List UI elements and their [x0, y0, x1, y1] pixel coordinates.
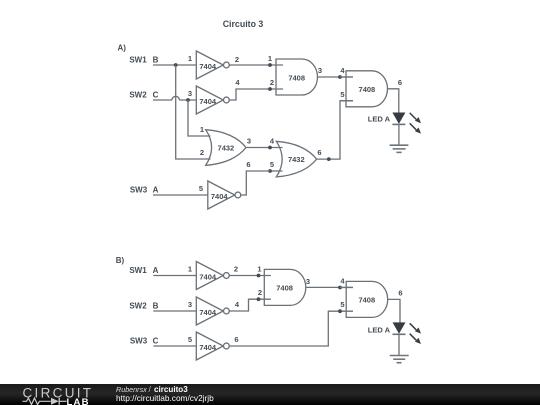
svg-text:1: 1 [268, 54, 272, 63]
wire LED A to ground [398, 124, 400, 145]
wire U4 out to U5 pin4 [318, 76, 354, 78]
svg-text:SW2: SW2 [129, 90, 147, 99]
svg-text:SW2: SW2 [129, 301, 147, 310]
svg-text:5: 5 [199, 184, 203, 193]
or-gate U6 7432 (A, second) [270, 137, 322, 177]
junction dot U6 pin5 [268, 169, 272, 173]
inverter U10 7404 (B, SW3) [188, 332, 239, 360]
svg-text:6: 6 [317, 148, 321, 157]
svg-text:7404: 7404 [199, 97, 217, 106]
wire U6 pin5 stub [270, 170, 283, 172]
svg-text:LED A: LED A [368, 326, 391, 335]
and-gate U4 7408 (A, first) [268, 54, 322, 95]
junction dot U6 out [327, 157, 331, 161]
junction dot U11 pin1 [257, 274, 261, 278]
LED D2 symbol [393, 322, 422, 344]
svg-text:6: 6 [398, 78, 402, 87]
wire U11 out to U12 pin4 [306, 286, 353, 288]
svg-text:4: 4 [270, 137, 275, 146]
wire U6 out up to U5 pin5 [317, 101, 354, 159]
wire C input (B) [153, 345, 196, 347]
wire B input (B) [153, 310, 196, 312]
svg-text:A: A [153, 185, 159, 194]
svg-text:6: 6 [234, 335, 238, 344]
svg-text:6: 6 [398, 288, 402, 297]
junction dot U5 pin4 [338, 75, 342, 79]
node SW3 A label [130, 185, 159, 194]
node SW2 B label (B) [129, 301, 158, 310]
svg-text:B: B [153, 55, 159, 64]
svg-text:1: 1 [200, 125, 204, 134]
svg-text:LED A: LED A [368, 114, 391, 123]
svg-text:7408: 7408 [276, 283, 293, 292]
logo waveform resistor zigzag [23, 398, 51, 404]
and-gate U5 7408 (A, second) [340, 66, 402, 107]
node SW1 B label [129, 55, 158, 64]
wire U1 out to U4 pin1 [229, 64, 283, 66]
svg-text:Circuito 3: Circuito 3 [223, 19, 264, 29]
svg-text:5: 5 [340, 300, 344, 309]
svg-text:7432: 7432 [218, 143, 235, 152]
junction dot node B [174, 63, 178, 67]
svg-text:3: 3 [188, 300, 192, 309]
LED D1 symbol [392, 113, 421, 134]
junction dot U6 pin4 [268, 146, 272, 150]
junction dot node C [186, 98, 190, 102]
svg-text:6: 6 [246, 160, 250, 169]
svg-text:SW1: SW1 [129, 266, 147, 275]
svg-text:2: 2 [270, 78, 274, 87]
svg-text:7404: 7404 [199, 272, 217, 281]
wire C branch down to OR1 pin1 [188, 100, 211, 136]
svg-text:5: 5 [340, 90, 344, 99]
inverter U9 7404 (B, SW2) [188, 297, 240, 325]
wire U5 pin4/pin5 stubs [340, 77, 353, 101]
svg-text:2: 2 [234, 265, 238, 274]
svg-text:C: C [153, 90, 159, 99]
svg-text:SW1: SW1 [129, 55, 147, 64]
footer bar [0, 384, 540, 405]
svg-text:2: 2 [235, 55, 239, 64]
svg-text:C: C [153, 336, 159, 345]
junction dot U12 pin4 [338, 286, 342, 290]
svg-text:7404: 7404 [199, 343, 217, 352]
svg-text:1: 1 [188, 265, 192, 274]
wire U3 out to U6 pin4 [246, 147, 283, 149]
svg-text:B): B) [116, 256, 125, 265]
wire A input (B) [153, 275, 196, 277]
wire U8 out to U11 pin1 [229, 275, 271, 277]
svg-text:2: 2 [200, 148, 204, 157]
wire B input [153, 64, 196, 66]
svg-text:7408: 7408 [359, 85, 376, 94]
and-gate U11 7408 (B, first) [257, 265, 310, 306]
wire U10 out to U12 pin5 [229, 311, 353, 346]
ground (section B) [390, 356, 409, 363]
svg-text:7404: 7404 [211, 192, 229, 201]
svg-text:1: 1 [188, 54, 192, 63]
svg-text:3: 3 [318, 66, 322, 75]
svg-text:2: 2 [258, 288, 262, 297]
svg-text:1: 1 [257, 265, 261, 274]
svg-text:5: 5 [188, 335, 192, 344]
svg-text:SW3: SW3 [130, 185, 148, 194]
wire U5 out to LED A [388, 89, 399, 113]
svg-text:7408: 7408 [288, 73, 305, 82]
svg-text:http://circuitlab.com/cv2jrjb: http://circuitlab.com/cv2jrjb [116, 392, 214, 402]
wire U12 out to LED A (B) [388, 299, 400, 322]
svg-text:7432: 7432 [288, 155, 305, 164]
svg-text:7404: 7404 [199, 308, 217, 317]
inverter U7 7404 (A, SW3) [199, 160, 251, 209]
svg-text:4: 4 [235, 78, 240, 87]
svg-text:4: 4 [235, 300, 240, 309]
node SW2 C label [129, 90, 158, 99]
svg-text:SW3: SW3 [130, 336, 148, 345]
inverter U1 7404 (A, SW1) [188, 51, 239, 79]
wire U2 out to U4 pin2 [229, 89, 283, 100]
wire LED to ground (B) [398, 334, 400, 355]
inverter U8 7404 (B, SW1) [188, 262, 238, 290]
svg-text:5: 5 [270, 160, 274, 169]
wire U7 out to U6 pin5 [241, 171, 270, 195]
svg-text:3: 3 [306, 277, 310, 286]
logo diode [51, 397, 59, 404]
junction dot U11 pin2 [257, 297, 261, 301]
junction dot U4 pin1 [268, 63, 272, 67]
svg-text:LAB: LAB [67, 396, 90, 405]
and-gate U12 7408 (B, second) [340, 277, 402, 318]
wire A input [153, 194, 208, 196]
junction dot U12 pin5 [338, 309, 342, 313]
svg-text:3: 3 [188, 89, 192, 98]
wire B branch down to OR1 pin2 [176, 65, 211, 159]
inverter U2 7404 (A, SW2) [188, 78, 241, 114]
junction dot U4 pin2 [268, 87, 272, 91]
wire C input with hop over B branch [153, 96, 196, 100]
wire U12 pin4 stub [340, 287, 353, 289]
svg-text:7404: 7404 [199, 62, 217, 71]
svg-text:4: 4 [340, 66, 345, 75]
svg-text:A): A) [118, 44, 127, 53]
svg-text:3: 3 [247, 137, 251, 146]
svg-text:A: A [153, 266, 159, 275]
or-gate U3 7432 (A, first) [200, 125, 251, 165]
svg-text:B: B [153, 301, 159, 310]
node SW3 C label (B) [130, 336, 159, 345]
svg-text:7408: 7408 [358, 295, 375, 304]
node SW1 A label (B) [129, 266, 158, 275]
svg-text:4: 4 [340, 277, 345, 286]
ground (section A) [390, 145, 409, 152]
wire U9 out to U11 pin2 [229, 299, 271, 311]
